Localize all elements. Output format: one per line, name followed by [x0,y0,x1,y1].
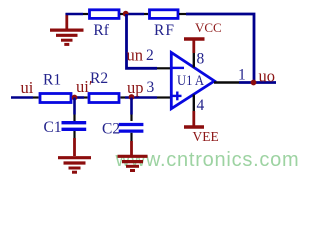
svg-text:www.cntronics.com: www.cntronics.com [115,149,300,171]
wire: C2 to ground [130,133,132,155]
op-amp U1A [171,53,214,109]
wire: output pin 1 [214,81,276,83]
resistor R1 [40,94,71,103]
svg-text:4: 4 [197,97,205,114]
svg-text:Rf: Rf [93,22,109,39]
wire: Rf to node A [120,13,148,15]
ground (top left) [50,13,84,44]
node B junction dot [72,95,78,101]
svg-text:ui′: ui′ [76,77,92,96]
svg-text:3: 3 [147,79,155,96]
wire: pin 3 stub [157,96,171,98]
capacitor C2 [119,125,144,132]
svg-text:uo: uo [259,67,276,86]
plus input mark [172,95,182,97]
resistor RF [150,10,179,19]
node C junction dot [129,94,135,100]
wire: R1 to node B [72,96,84,99]
ground (below C1) [58,158,91,173]
node D junction dot (output) [251,80,257,86]
svg-text:1: 1 [238,67,246,84]
node A junction dot [123,11,129,17]
ground (below C2) [118,156,148,170]
capacitor C1 [62,123,87,130]
resistor Rf [90,10,120,19]
svg-text:RF: RF [154,22,175,39]
svg-text:C1: C1 [44,119,62,136]
wire: input ui to R1 [11,96,39,99]
svg-text:R2: R2 [90,70,108,87]
svg-text:ui: ui [21,78,34,97]
svg-text:up: up [127,78,144,97]
svg-text:R1: R1 [43,71,61,88]
svg-text:un: un [127,46,144,65]
svg-text:VCC: VCC [195,20,222,35]
svg-text:VEE: VEE [193,129,219,144]
wire: node A down to pin 2 [127,14,172,68]
wire: C1 to ground [73,131,75,156]
wire: node B to R2 (pin stub) [84,96,88,98]
VCC power symbol [184,39,205,68]
svg-text:U1 A: U1 A [177,73,204,89]
svg-text:8: 8 [197,50,205,67]
svg-text:2: 2 [146,47,154,64]
wire: RF right to feedback corner and down to output [179,14,254,83]
wire: node C down to C2 [130,98,133,122]
minus input mark [172,67,184,69]
wire: ground to Rf [66,13,89,16]
svg-text:C2: C2 [102,121,120,138]
resistor R2 [89,94,119,103]
wire: R2 to node C [121,96,158,98]
wire: node B down to C1 [73,98,76,122]
VEE power symbol [184,95,204,128]
